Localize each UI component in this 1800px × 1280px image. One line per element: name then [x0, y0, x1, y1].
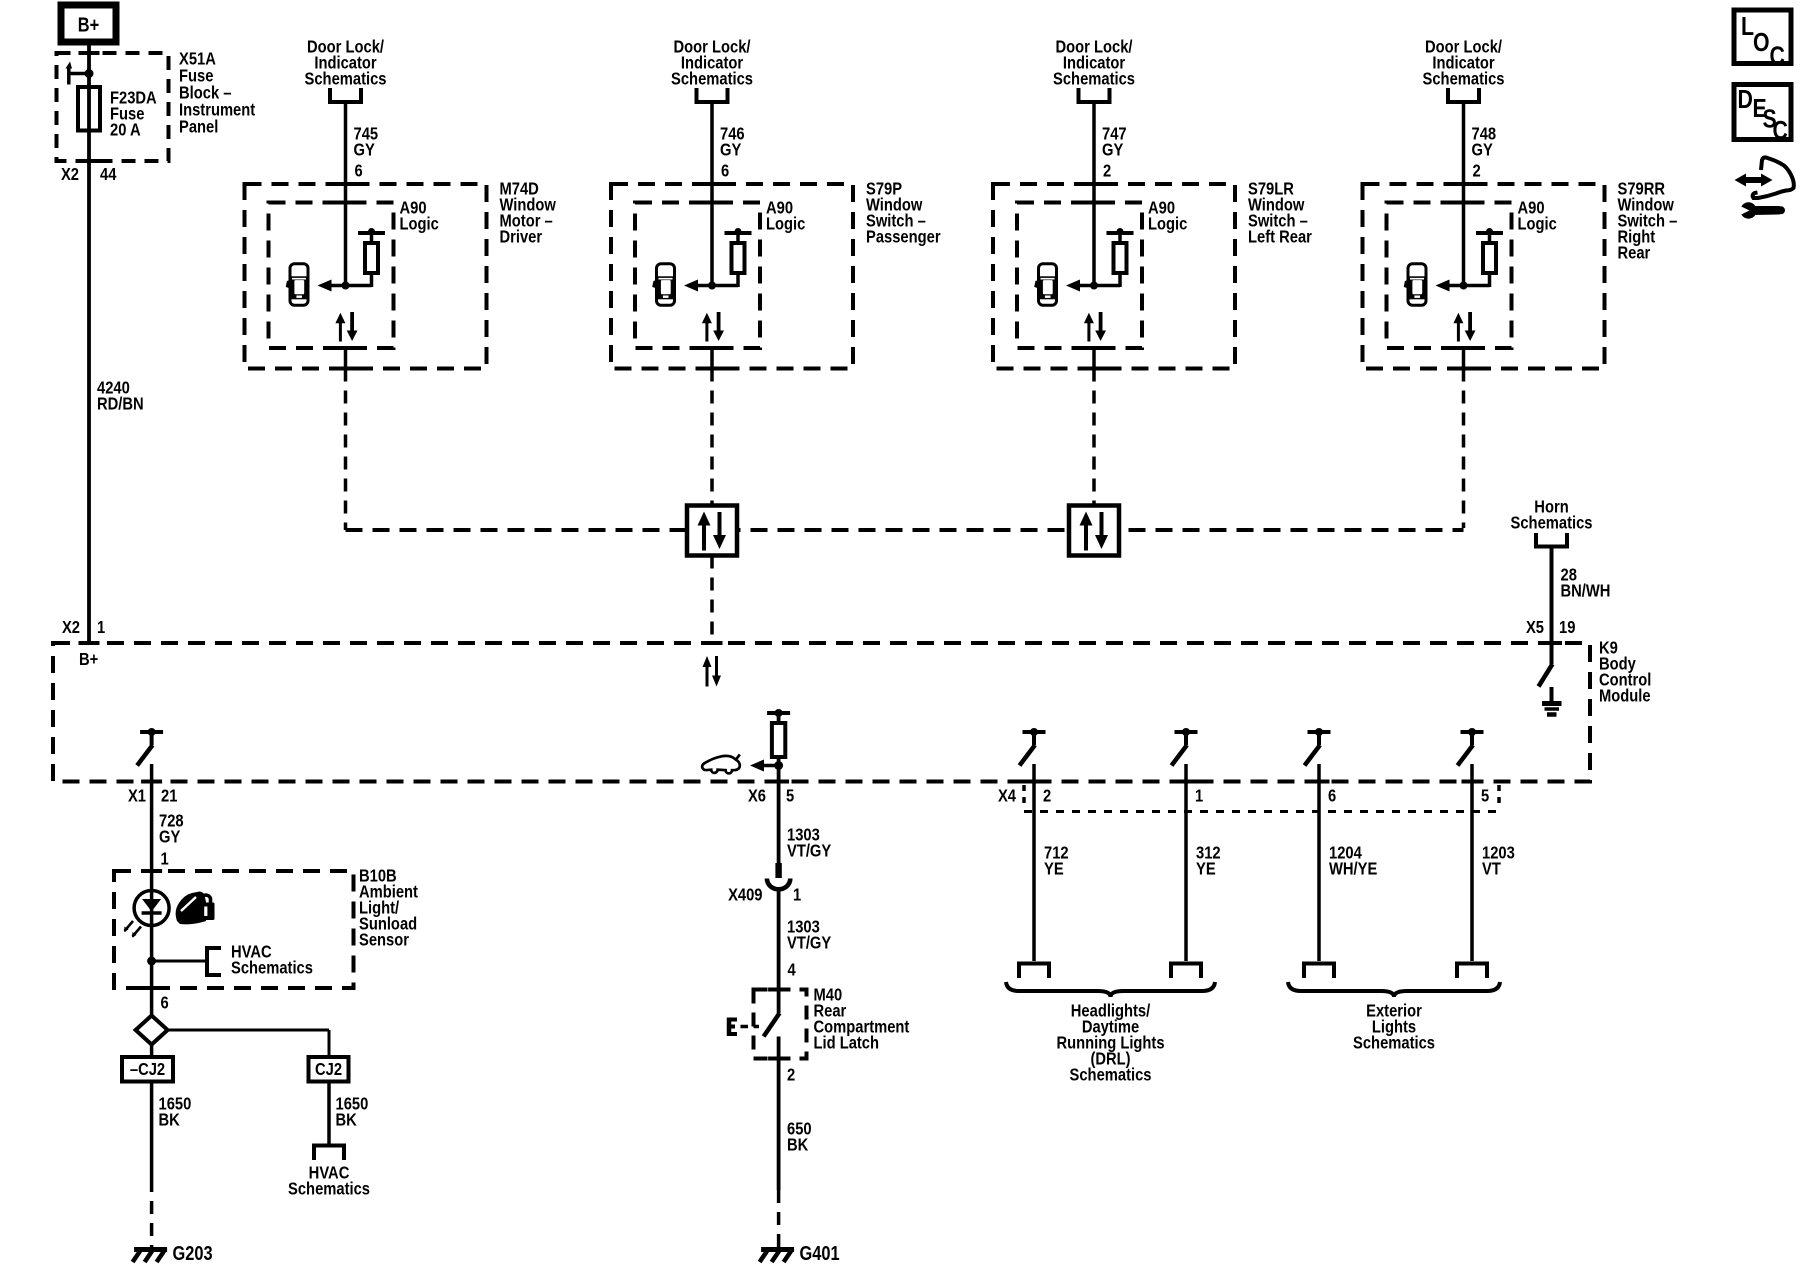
svg-text:6: 6 — [161, 993, 169, 1013]
svg-text:5: 5 — [1481, 786, 1489, 806]
svg-text:X4: X4 — [998, 786, 1017, 806]
svg-text:Logic: Logic — [1518, 214, 1557, 234]
svg-text:Logic: Logic — [1148, 214, 1187, 234]
svg-text:Driver: Driver — [500, 227, 543, 247]
svg-text:BN/WH: BN/WH — [1561, 581, 1611, 601]
svg-text:GY: GY — [720, 140, 741, 160]
svg-text:Schematics: Schematics — [305, 69, 387, 89]
svg-text:BK: BK — [336, 1110, 357, 1130]
svg-text:B+: B+ — [79, 650, 98, 670]
svg-text:Module: Module — [1599, 686, 1651, 706]
svg-text:YE: YE — [1044, 859, 1064, 879]
svg-text:1: 1 — [161, 849, 169, 869]
svg-text:Schematics: Schematics — [671, 69, 753, 89]
svg-text:VT/GY: VT/GY — [787, 933, 831, 953]
svg-text:5: 5 — [786, 786, 794, 806]
svg-text:Schematics: Schematics — [1353, 1033, 1435, 1053]
svg-text:X1: X1 — [128, 786, 146, 806]
svg-text:GY: GY — [354, 140, 375, 160]
svg-text:1: 1 — [97, 618, 105, 638]
svg-text:19: 19 — [1559, 618, 1575, 638]
svg-text:1: 1 — [1195, 786, 1203, 806]
svg-text:Schematics: Schematics — [1423, 69, 1505, 89]
svg-text:44: 44 — [100, 165, 117, 185]
svg-text:VT: VT — [1482, 859, 1501, 879]
svg-text:Left Rear: Left Rear — [1248, 227, 1312, 247]
svg-text:–CJ2: –CJ2 — [130, 1060, 165, 1080]
svg-text:Lid Latch: Lid Latch — [814, 1033, 880, 1053]
svg-text:X409: X409 — [728, 885, 762, 905]
svg-text:20 A: 20 A — [110, 120, 141, 140]
svg-text:BK: BK — [159, 1110, 180, 1130]
svg-text:X2: X2 — [62, 618, 80, 638]
svg-text:Rear: Rear — [1618, 243, 1651, 263]
svg-text:Schematics: Schematics — [231, 958, 313, 978]
svg-text:Logic: Logic — [400, 214, 439, 234]
svg-text:C: C — [1770, 42, 1785, 72]
svg-text:Panel: Panel — [179, 117, 218, 137]
svg-text:CJ2: CJ2 — [315, 1060, 342, 1080]
svg-text:2: 2 — [1473, 161, 1481, 181]
svg-text:L: L — [1741, 12, 1754, 42]
svg-text:WH/YE: WH/YE — [1329, 859, 1377, 879]
svg-text:RD/BN: RD/BN — [97, 394, 144, 414]
svg-text:6: 6 — [355, 161, 363, 181]
svg-text:Schematics: Schematics — [1053, 69, 1135, 89]
svg-text:Passenger: Passenger — [866, 227, 941, 247]
svg-text:2: 2 — [1103, 161, 1111, 181]
svg-text:G203: G203 — [173, 1241, 213, 1264]
svg-text:Logic: Logic — [766, 214, 805, 234]
svg-text:X6: X6 — [748, 786, 766, 806]
svg-text:6: 6 — [721, 161, 729, 181]
svg-text:Sensor: Sensor — [359, 930, 410, 950]
svg-text:1: 1 — [793, 885, 801, 905]
svg-text:G401: G401 — [800, 1241, 840, 1264]
svg-text:Schematics: Schematics — [1511, 513, 1593, 533]
svg-text:B+: B+ — [78, 13, 99, 36]
svg-text:X5: X5 — [1526, 618, 1544, 638]
svg-text:X2: X2 — [61, 165, 79, 185]
svg-text:D: D — [1738, 85, 1753, 115]
svg-text:C: C — [1773, 116, 1788, 146]
svg-text:2: 2 — [1043, 786, 1051, 806]
svg-text:YE: YE — [1196, 859, 1216, 879]
svg-text:O: O — [1753, 28, 1770, 58]
svg-text:GY: GY — [1472, 140, 1493, 160]
svg-text:Schematics: Schematics — [1070, 1065, 1152, 1085]
svg-text:6: 6 — [1328, 786, 1336, 806]
svg-text:GY: GY — [159, 827, 180, 847]
svg-text:4: 4 — [788, 960, 797, 980]
svg-text:Schematics: Schematics — [288, 1179, 370, 1199]
svg-text:VT/GY: VT/GY — [787, 841, 831, 861]
svg-text:GY: GY — [1102, 140, 1123, 160]
svg-text:BK: BK — [787, 1135, 808, 1155]
svg-text:2: 2 — [787, 1065, 795, 1085]
svg-text:21: 21 — [161, 786, 177, 806]
